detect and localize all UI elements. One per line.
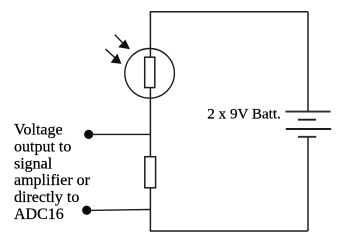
light arrow 1 (upper): [115, 35, 130, 50]
wire: right vertical lower (from battery -): [307, 137, 309, 231]
label: output text: [14, 122, 91, 224]
wire: right vertical upper (to battery +): [307, 12, 309, 112]
svg-text:Voltage: Voltage: [14, 122, 63, 139]
svg-text:ADC16: ADC16: [14, 206, 64, 223]
battery B1: plate long bottom: [286, 128, 331, 130]
photoresistor LDR R1: resistor body: [145, 57, 155, 87]
svg-text:output to: output to: [14, 138, 71, 155]
wire: node B to divider: [88, 209, 151, 212]
wire: bottom horizontal: [150, 230, 308, 232]
wire: node A to divider: [90, 133, 151, 135]
battery B1: plate short: [298, 119, 316, 121]
node B (lower output tap): [82, 206, 91, 215]
wire: left vertical (through LDR and resistor): [149, 12, 151, 231]
svg-text:directly to: directly to: [14, 189, 79, 206]
light arrow 2 (lower): [105, 49, 121, 64]
battery B1: plate long top: [286, 111, 331, 113]
svg-text:2 x 9V Batt.: 2 x 9V Batt.: [207, 107, 281, 123]
battery B1: plate short bottom: [298, 136, 316, 138]
wire: top horizontal: [150, 11, 308, 13]
svg-text:signal: signal: [14, 155, 53, 172]
photoresistor LDR R1: circle: [125, 49, 175, 99]
svg-text:amplifier or: amplifier or: [14, 172, 91, 189]
node A (upper output tap): [84, 130, 93, 139]
resistor R2: [145, 157, 156, 188]
